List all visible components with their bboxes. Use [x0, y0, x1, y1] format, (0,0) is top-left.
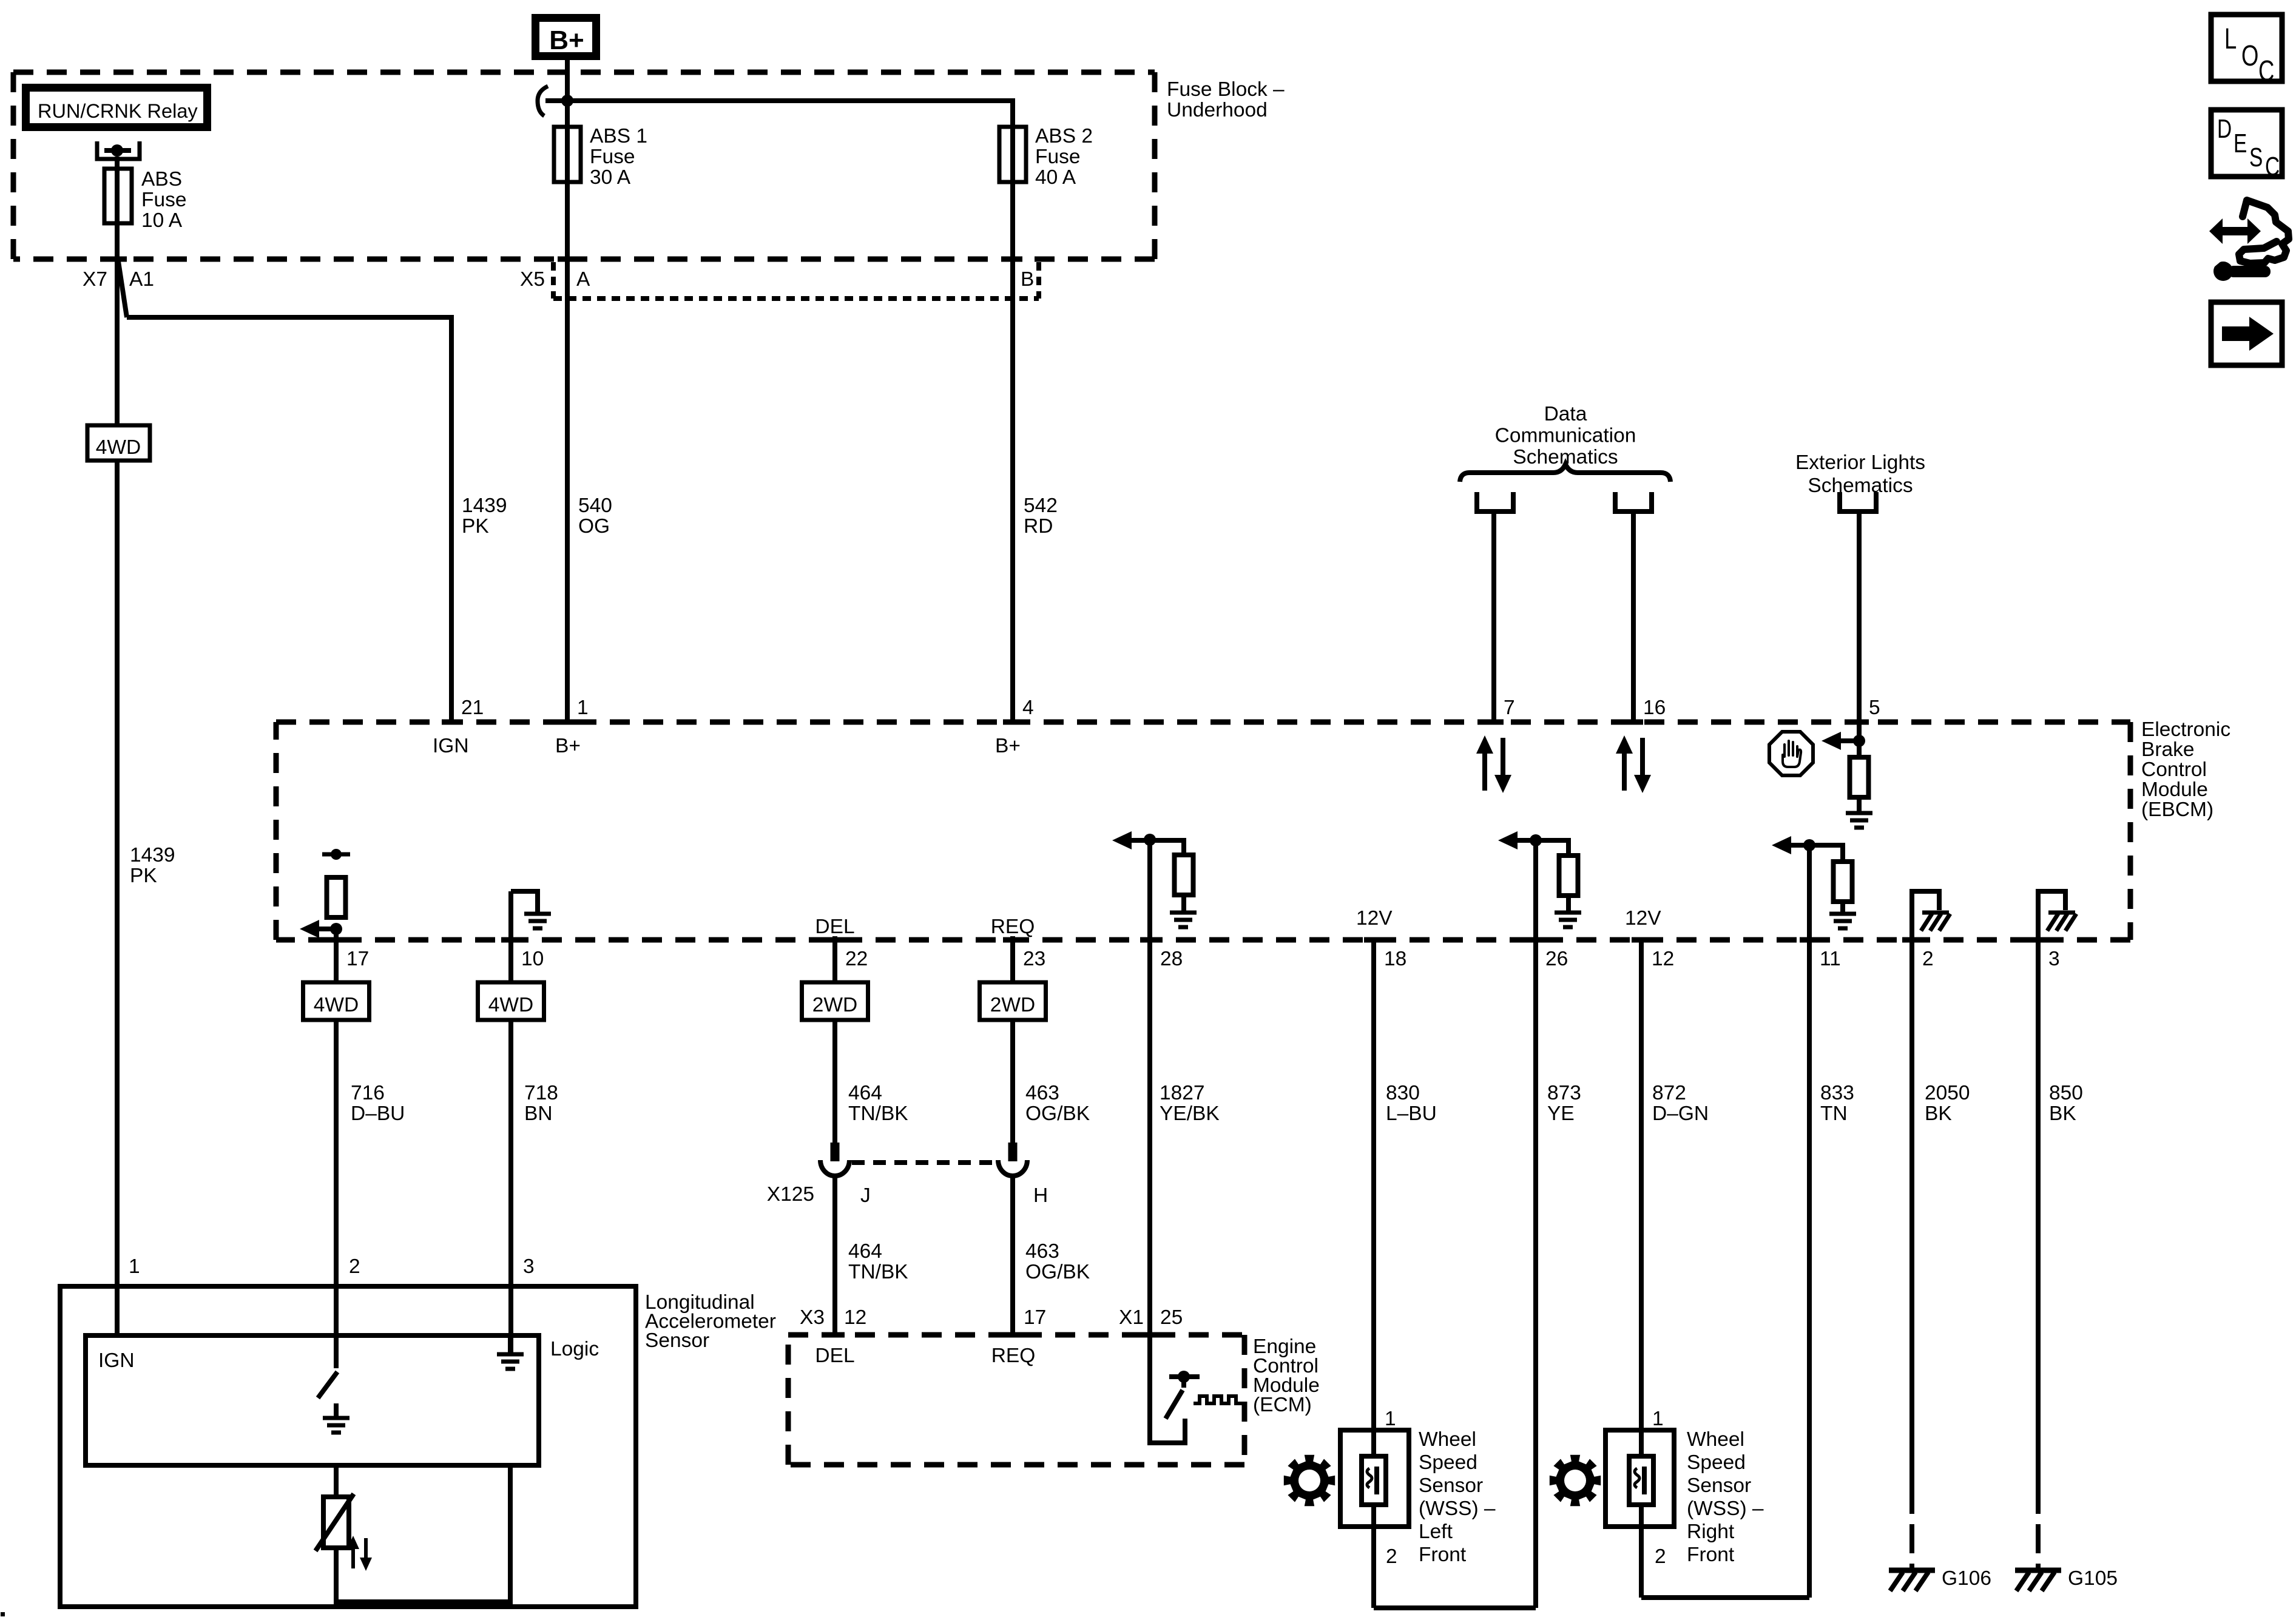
- svg-text:4WD: 4WD: [314, 994, 359, 1016]
- svg-text:1: 1: [1385, 1408, 1396, 1430]
- svg-text:C: C: [2258, 55, 2274, 87]
- svg-text:2: 2: [349, 1255, 360, 1278]
- svg-text:B: B: [1021, 268, 1034, 291]
- svg-text:Left: Left: [1419, 1521, 1453, 1543]
- svg-text:Fuse: Fuse: [141, 189, 186, 211]
- svg-text:2050: 2050: [1925, 1082, 1970, 1104]
- svg-text:G106: G106: [1942, 1567, 1991, 1590]
- svg-text:G105: G105: [2068, 1567, 2118, 1590]
- svg-text:L–BU: L–BU: [1386, 1102, 1437, 1125]
- svg-text:10: 10: [521, 948, 544, 970]
- svg-text:RD: RD: [1024, 515, 1053, 538]
- svg-text:S: S: [2249, 143, 2263, 172]
- svg-text:(EBCM): (EBCM): [2141, 798, 2213, 821]
- svg-text:2: 2: [1386, 1545, 1397, 1568]
- svg-text:Schematics: Schematics: [1808, 474, 1913, 497]
- svg-text:1: 1: [129, 1255, 140, 1278]
- svg-text:A: A: [576, 268, 590, 291]
- svg-text:Module: Module: [2141, 778, 2208, 801]
- svg-text:3: 3: [2048, 948, 2060, 970]
- svg-text:BN: BN: [524, 1102, 553, 1125]
- svg-text:18: 18: [1384, 948, 1406, 970]
- svg-text:TN: TN: [1820, 1102, 1848, 1125]
- svg-text:B+: B+: [555, 735, 581, 757]
- svg-text:22: 22: [845, 948, 868, 970]
- svg-text:464: 464: [848, 1082, 882, 1104]
- svg-text:12V: 12V: [1356, 907, 1393, 930]
- svg-text:542: 542: [1024, 495, 1058, 517]
- svg-text:Right: Right: [1687, 1521, 1735, 1543]
- svg-text:3: 3: [523, 1255, 535, 1278]
- svg-text:L: L: [2224, 22, 2237, 55]
- svg-text:X5: X5: [520, 268, 545, 291]
- svg-text:TN/BK: TN/BK: [848, 1102, 908, 1125]
- svg-text:Front: Front: [1687, 1544, 1735, 1566]
- svg-text:ABS 2: ABS 2: [1035, 125, 1093, 147]
- svg-text:RUN/CRNK Relay: RUN/CRNK Relay: [38, 100, 198, 122]
- svg-text:Control: Control: [2141, 758, 2207, 781]
- svg-text:Brake: Brake: [2141, 738, 2195, 761]
- svg-text:17: 17: [346, 948, 369, 970]
- svg-text:2: 2: [1922, 948, 1934, 970]
- svg-text:Logic: Logic: [550, 1338, 599, 1360]
- svg-text:850: 850: [2049, 1082, 2083, 1104]
- svg-text:BK: BK: [2049, 1102, 2076, 1125]
- svg-text:7: 7: [1504, 697, 1515, 719]
- svg-text:11: 11: [1820, 948, 1841, 970]
- svg-text:Sensor: Sensor: [1687, 1474, 1751, 1497]
- svg-text:716: 716: [351, 1082, 385, 1104]
- svg-text:Wheel: Wheel: [1687, 1428, 1744, 1451]
- svg-text:Speed: Speed: [1687, 1451, 1746, 1474]
- svg-text:16: 16: [1643, 697, 1666, 719]
- svg-text:D–BU: D–BU: [351, 1102, 405, 1125]
- svg-text:Exterior Lights: Exterior Lights: [1795, 451, 1925, 474]
- svg-text:(WSS) –: (WSS) –: [1687, 1497, 1764, 1520]
- svg-text:X7: X7: [83, 268, 107, 291]
- svg-text:OG/BK: OG/BK: [1025, 1102, 1090, 1125]
- svg-text:B+: B+: [549, 25, 584, 55]
- svg-text:J: J: [860, 1184, 871, 1207]
- svg-text:873: 873: [1547, 1082, 1581, 1104]
- svg-text:OG: OG: [578, 515, 610, 538]
- svg-text:830: 830: [1386, 1082, 1420, 1104]
- svg-text:4: 4: [1022, 697, 1034, 719]
- svg-text:IGN: IGN: [433, 735, 469, 757]
- svg-text:1: 1: [577, 697, 589, 719]
- svg-text:OG/BK: OG/BK: [1025, 1261, 1090, 1283]
- svg-text:D: D: [2217, 115, 2232, 144]
- svg-text:(ECM): (ECM): [1253, 1394, 1312, 1416]
- svg-text:DEL: DEL: [815, 916, 854, 938]
- svg-text:10 A: 10 A: [141, 209, 183, 232]
- svg-text:Sensor: Sensor: [645, 1329, 709, 1352]
- svg-text:PK: PK: [130, 865, 157, 887]
- svg-text:40 A: 40 A: [1035, 166, 1076, 189]
- svg-text:X125: X125: [767, 1183, 814, 1206]
- svg-text:718: 718: [524, 1082, 558, 1104]
- svg-text:PK: PK: [462, 515, 489, 538]
- svg-text:Data: Data: [1544, 403, 1587, 425]
- svg-text:YE: YE: [1547, 1102, 1575, 1125]
- svg-text:2WD: 2WD: [990, 994, 1035, 1016]
- svg-text:12: 12: [1652, 948, 1674, 970]
- svg-text:1439: 1439: [462, 495, 507, 517]
- svg-text:833: 833: [1820, 1082, 1854, 1104]
- svg-text:30 A: 30 A: [590, 166, 631, 189]
- svg-text:1439: 1439: [130, 844, 175, 866]
- svg-text:1: 1: [1652, 1408, 1664, 1430]
- svg-text:Underhood: Underhood: [1167, 99, 1268, 121]
- svg-text:Wheel: Wheel: [1419, 1428, 1476, 1451]
- svg-text:O: O: [2241, 39, 2258, 72]
- svg-text:Fuse: Fuse: [1035, 146, 1080, 168]
- svg-text:540: 540: [578, 495, 612, 517]
- svg-text:(WSS) –: (WSS) –: [1419, 1497, 1496, 1520]
- svg-text:IGN: IGN: [98, 1349, 135, 1372]
- svg-text:4WD: 4WD: [488, 994, 533, 1016]
- svg-text:Front: Front: [1419, 1544, 1467, 1566]
- svg-text:C: C: [2265, 152, 2280, 181]
- svg-text:5: 5: [1869, 697, 1880, 719]
- svg-text:TN/BK: TN/BK: [848, 1261, 908, 1283]
- svg-text:D–GN: D–GN: [1652, 1102, 1709, 1125]
- svg-text:REQ: REQ: [991, 1345, 1036, 1367]
- svg-text:Fuse: Fuse: [590, 146, 635, 168]
- svg-text:2: 2: [1655, 1545, 1666, 1568]
- svg-text:Electronic: Electronic: [2141, 718, 2230, 741]
- svg-text:Speed: Speed: [1419, 1451, 1477, 1474]
- svg-text:ABS 1: ABS 1: [590, 125, 647, 147]
- svg-text:BK: BK: [1925, 1102, 1952, 1125]
- svg-text:25: 25: [1160, 1306, 1183, 1329]
- svg-text:28: 28: [1160, 948, 1183, 970]
- svg-text:2WD: 2WD: [812, 994, 857, 1016]
- svg-text:DEL: DEL: [815, 1345, 854, 1367]
- svg-text:REQ: REQ: [991, 916, 1035, 938]
- svg-text:12: 12: [844, 1306, 866, 1329]
- svg-text:Communication: Communication: [1495, 425, 1636, 447]
- svg-text:X3: X3: [800, 1306, 825, 1329]
- svg-text:E: E: [2234, 129, 2247, 158]
- svg-text:X1: X1: [1119, 1306, 1144, 1329]
- svg-text:12V: 12V: [1625, 907, 1661, 930]
- svg-text:Sensor: Sensor: [1419, 1474, 1483, 1497]
- svg-text:463: 463: [1025, 1240, 1059, 1263]
- svg-text:463: 463: [1025, 1082, 1059, 1104]
- svg-text:4WD: 4WD: [96, 436, 141, 459]
- svg-text:26: 26: [1545, 948, 1568, 970]
- svg-text:17: 17: [1024, 1306, 1046, 1329]
- svg-text:A1: A1: [129, 268, 154, 291]
- svg-text:23: 23: [1023, 948, 1045, 970]
- svg-text:B+: B+: [995, 735, 1021, 757]
- svg-text:H: H: [1033, 1184, 1048, 1207]
- svg-text:1827: 1827: [1160, 1082, 1205, 1104]
- svg-text:Fuse Block –: Fuse Block –: [1167, 78, 1285, 101]
- svg-text:872: 872: [1652, 1082, 1686, 1104]
- svg-text:21: 21: [461, 697, 484, 719]
- svg-text:464: 464: [848, 1240, 882, 1263]
- svg-text:YE/BK: YE/BK: [1160, 1102, 1220, 1125]
- svg-text:ABS: ABS: [141, 168, 182, 191]
